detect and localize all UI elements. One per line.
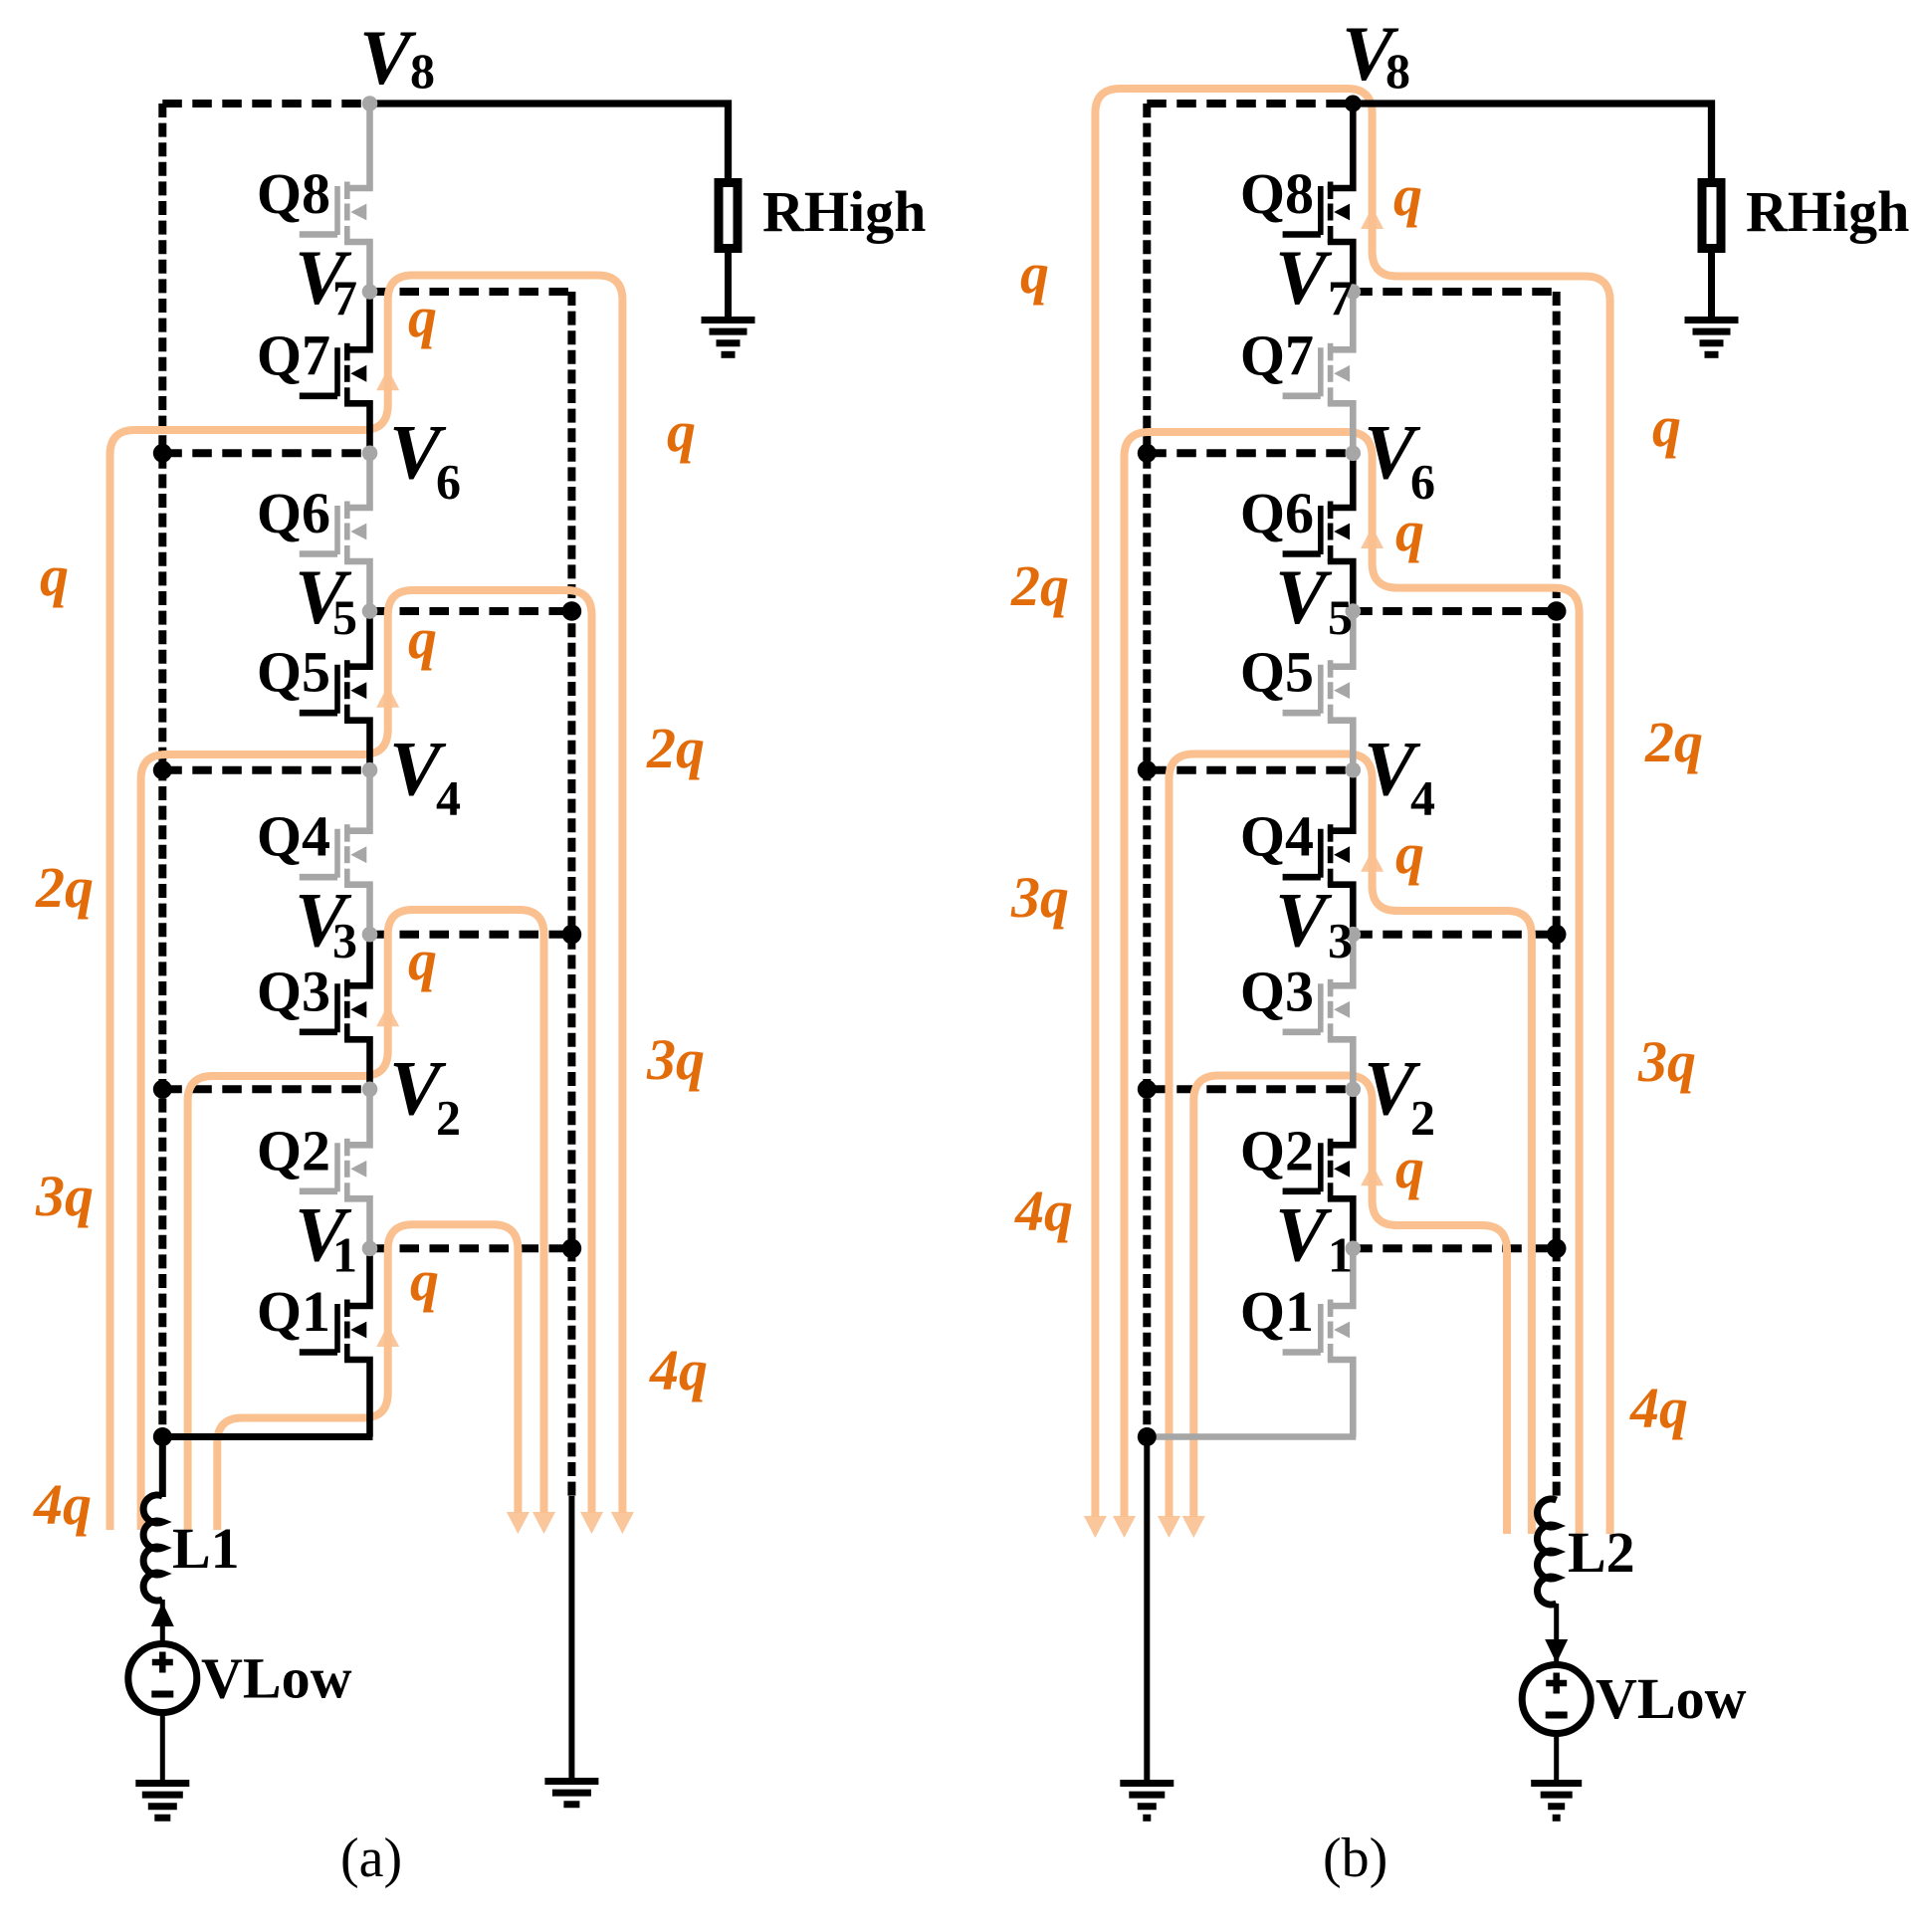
svg-text:4q: 4q [1629, 1376, 1688, 1440]
transistor Q7 (a) [300, 292, 370, 453]
label V6 (b) [1364, 408, 1435, 509]
svg-text:q: q [1395, 1136, 1424, 1200]
wire V8 to RHigh (b) [1353, 104, 1711, 178]
flow arrowhead Q1 (a) out [507, 1512, 530, 1534]
dashed cap link V8 top (a) [162, 100, 369, 107]
dashed cap link V3 (a) [370, 931, 572, 939]
dashed right bus (b) [1553, 292, 1561, 1498]
label q at Q8 (b) [1393, 163, 1422, 228]
flow arrow Q5 (a) up [376, 686, 399, 708]
svg-text:q: q [1395, 821, 1424, 886]
label 3q left (b) [1010, 865, 1069, 930]
label Q7 (a) [257, 322, 330, 387]
svg-text:Q4: Q4 [257, 804, 330, 869]
svg-text:Q1: Q1 [257, 1279, 330, 1344]
wire VLow to ground (b) [1554, 1733, 1559, 1783]
source VLow (b) [1522, 1665, 1591, 1734]
label V3 (a) [295, 877, 357, 968]
svg-text:Q5: Q5 [257, 640, 330, 705]
label q left (b) [1020, 241, 1049, 306]
label Q6 (a) [257, 481, 330, 545]
node right bus junction V5 (b) [1547, 601, 1567, 621]
svg-text:RHigh: RHigh [1746, 179, 1909, 244]
label V4 (a) [389, 726, 461, 826]
label Q4 (a) [257, 804, 330, 869]
flow arrowhead Q8 (b) out [1084, 1516, 1107, 1538]
node V1 (a) [362, 1241, 378, 1257]
resistor RHigh (a) [719, 183, 738, 249]
svg-text:Q7: Q7 [257, 322, 330, 387]
svg-text:3q: 3q [1010, 865, 1069, 930]
node V2 (a) [362, 1082, 378, 1098]
label Q1 (b) [1240, 1279, 1314, 1344]
wire bottom rail (a) [162, 1433, 372, 1440]
dashed left bus (a) [158, 104, 166, 1437]
svg-text:Q1: Q1 [1240, 1279, 1314, 1344]
label V3 (b) [1275, 877, 1353, 968]
label Q5 (a) [257, 640, 330, 705]
flow arrow Q2 (b) up [1361, 1164, 1384, 1185]
svg-text:3: 3 [1328, 913, 1353, 968]
label q at Q7 (a) [408, 285, 437, 349]
svg-text:q: q [408, 606, 437, 671]
label V1 (a) [295, 1190, 357, 1282]
label V8 (b) [1342, 10, 1410, 99]
label V7 (b) [1275, 234, 1353, 325]
svg-text:q: q [1393, 163, 1422, 228]
wire L2 to VLow (b) [1554, 1604, 1559, 1662]
transistor Q8 (a) [300, 104, 370, 292]
svg-text:V: V [359, 14, 417, 101]
wire right bus to ground (a) [568, 1496, 574, 1781]
node V3 (a) [362, 927, 378, 943]
label Q4 (b) [1240, 804, 1314, 869]
wire left bus to ground (b) [1144, 1437, 1150, 1784]
svg-text:Q4: Q4 [1240, 804, 1314, 869]
dashed cap link V2 (b) [1147, 1085, 1353, 1093]
dashed cap link V6 (a) [162, 449, 369, 457]
svg-text:Q8: Q8 [257, 161, 330, 226]
label q at Q3 (a) [408, 928, 437, 992]
transistor Q2 (b) [1283, 1089, 1354, 1248]
svg-text:2: 2 [436, 1089, 461, 1145]
transistor Q3 (b) [1283, 935, 1354, 1090]
label 2q left (b) [1010, 553, 1069, 618]
label q at Q6 (b) [1395, 499, 1424, 563]
label 2q right (b) [1644, 710, 1703, 774]
wire bottom rail (b) [1147, 1433, 1356, 1440]
wire RHigh to ground (a) [725, 249, 732, 321]
svg-text:7: 7 [332, 270, 357, 325]
svg-text:RHigh: RHigh [762, 179, 926, 244]
dashed cap link V5 (a) [370, 607, 572, 615]
label VLow (b) [1596, 1666, 1747, 1731]
wire V8 to RHigh (a) [370, 104, 729, 178]
svg-text:Q2: Q2 [1240, 1118, 1314, 1182]
node V5 (a) [362, 603, 378, 619]
svg-text:q: q [410, 1248, 439, 1313]
svg-text:V: V [1275, 1190, 1333, 1277]
svg-text:4q: 4q [1014, 1179, 1073, 1243]
resistor RHigh (b) [1702, 183, 1721, 249]
node V6 (b) [1346, 446, 1362, 462]
flow arrowhead Q4 (b) out [1158, 1516, 1180, 1538]
label 4q left (b) [1014, 1179, 1073, 1243]
label q at Q2 (b) [1395, 1136, 1424, 1200]
svg-text:4: 4 [1410, 770, 1435, 826]
label q left (a) [40, 543, 69, 608]
flow arrow Q6 (b) up [1361, 527, 1384, 548]
node right bus junction V3 (a) [562, 925, 582, 945]
flow arrowhead Q2 (b) out [1182, 1516, 1205, 1538]
label RHigh (a) [762, 179, 926, 244]
flow arrowhead Q3 (a) out [532, 1512, 555, 1534]
node V6 (a) [362, 446, 378, 462]
label Q3 (b) [1240, 959, 1314, 1023]
svg-text:3q: 3q [646, 1027, 705, 1092]
flow path q through Q4 (b) [1170, 754, 1532, 1535]
flow arrow Q3 (a) up [376, 1004, 399, 1026]
svg-text:5: 5 [332, 589, 357, 645]
transistor Q5 (b) [1283, 611, 1354, 770]
flow path q through Q3 (a) [188, 910, 544, 1530]
svg-text:L1: L1 [172, 1516, 240, 1581]
svg-text:q: q [1652, 394, 1681, 459]
transistor Q8 (b) [1283, 104, 1354, 292]
node V7 (a) [362, 284, 378, 300]
flow path q through Q7 (a) [110, 276, 623, 1531]
node left bus junction V2 (a) [153, 1080, 172, 1099]
label (b) [1323, 1827, 1387, 1889]
label V6 (a) [389, 408, 461, 509]
label 4q left (a) [33, 1472, 92, 1537]
label Q6 (b) [1240, 481, 1314, 545]
svg-text:2q: 2q [1010, 553, 1069, 618]
node right bus junction V3 (b) [1547, 925, 1567, 945]
flow arrowhead Q6 (b) out [1113, 1516, 1136, 1538]
dashed cap link V3 (b) [1353, 931, 1556, 939]
label Q3 (a) [257, 959, 330, 1023]
label RHigh (b) [1746, 179, 1909, 244]
svg-text:4: 4 [436, 770, 461, 826]
dashed cap link V2 (a) [162, 1085, 369, 1093]
label V8 (a) [359, 14, 435, 101]
label q at Q5 (a) [408, 606, 437, 671]
inductor L1 [143, 1495, 162, 1601]
label V7 (a) [295, 234, 357, 325]
label Q1 (a) [257, 1279, 330, 1344]
svg-text:VLow: VLow [201, 1646, 352, 1711]
label V2 (b) [1364, 1044, 1435, 1145]
node left bus junction V4 (b) [1138, 760, 1157, 779]
dashed cap link V1 (a) [370, 1244, 572, 1252]
svg-text:Q8: Q8 [1240, 161, 1314, 226]
wire L1 to VLow (a) [160, 1600, 165, 1644]
label V4 (b) [1364, 726, 1435, 826]
transistor Q7 (b) [1283, 292, 1354, 453]
label 4q right (b) [1629, 1376, 1688, 1440]
svg-text:q: q [408, 285, 437, 349]
svg-text:Q3: Q3 [257, 959, 330, 1023]
flow arrow Q7 (a) up [376, 368, 399, 390]
node V8 (b) [1345, 96, 1362, 112]
svg-text:1: 1 [1328, 1226, 1353, 1282]
label 3q right (b) [1637, 1029, 1696, 1094]
ground RHigh (a) [702, 321, 755, 355]
wire VLow to ground (a) [160, 1712, 165, 1783]
transistor Q2 (a) [300, 1089, 370, 1248]
svg-text:4q: 4q [33, 1472, 92, 1537]
source VLow (a) [128, 1644, 197, 1713]
dashed cap link V4 (b) [1147, 766, 1353, 774]
svg-text:2q: 2q [646, 716, 705, 780]
node V1 (b) [1346, 1241, 1362, 1257]
node V8 (a) [362, 96, 378, 111]
ground RHigh (b) [1685, 321, 1739, 355]
svg-text:V: V [1275, 877, 1333, 964]
svg-text:Q6: Q6 [1240, 481, 1314, 545]
label 3q right (a) [646, 1027, 705, 1092]
svg-text:8: 8 [1385, 43, 1410, 99]
svg-text:q: q [40, 543, 69, 608]
dashed cap link V7 (a) [370, 288, 572, 296]
label V5 (b) [1275, 553, 1353, 645]
label V1 (b) [1275, 1190, 1353, 1282]
node right bus junction V5 (a) [562, 601, 582, 621]
transistor Q3 (a) [300, 935, 370, 1090]
label V2 (a) [389, 1044, 461, 1145]
node right bus junction V1 (b) [1547, 1239, 1567, 1259]
label q at Q1 (a) [410, 1248, 439, 1313]
svg-text:8: 8 [410, 43, 435, 99]
node V2 (b) [1346, 1082, 1362, 1098]
wire RHigh to ground (b) [1708, 249, 1715, 321]
flow arrowhead Q7 (a) out [611, 1512, 634, 1534]
svg-text:6: 6 [436, 453, 461, 509]
flow path q through Q1 (a) [217, 1224, 518, 1530]
transistor Q6 (a) [300, 453, 370, 611]
label 3q left (a) [35, 1164, 94, 1228]
dashed cap link V7 (b) [1353, 288, 1556, 296]
svg-text:L2: L2 [1568, 1520, 1635, 1585]
svg-text:VLow: VLow [1596, 1666, 1747, 1731]
svg-text:q: q [1020, 241, 1049, 306]
flow arrow Q1 (a) up [376, 1325, 399, 1347]
flow path q through Q6 (b) [1125, 432, 1580, 1534]
flow path q through Q2 (b) [1193, 1076, 1507, 1535]
svg-text:Q5: Q5 [1240, 640, 1314, 705]
dashed right bus (a) [567, 292, 575, 1498]
flow path q through Q8 (b) [1095, 89, 1609, 1534]
svg-text:7: 7 [1328, 270, 1353, 325]
dashed cap link V4 (a) [162, 766, 369, 774]
transistor Q5 (a) [300, 611, 370, 770]
svg-text:q: q [408, 928, 437, 992]
svg-text:q: q [1395, 499, 1424, 563]
svg-text:1: 1 [332, 1226, 357, 1282]
label Q2 (b) [1240, 1118, 1314, 1182]
svg-text:Q7: Q7 [1240, 322, 1314, 387]
label q right (b) [1652, 394, 1681, 459]
flow arrowhead Q5 (a) out [580, 1512, 603, 1534]
node V5 (b) [1346, 603, 1362, 619]
label L1 [172, 1516, 240, 1581]
current arrow into L1 [151, 1603, 174, 1626]
node V4 (a) [362, 762, 378, 778]
svg-text:5: 5 [1328, 589, 1353, 645]
svg-text:Q6: Q6 [257, 481, 330, 545]
label Q8 (a) [257, 161, 330, 226]
dashed cap link V5 (b) [1353, 607, 1556, 615]
svg-text:3q: 3q [1637, 1029, 1696, 1094]
node left bus junction V2 (b) [1138, 1080, 1157, 1099]
node V3 (b) [1346, 927, 1362, 943]
svg-text:(b): (b) [1323, 1827, 1387, 1889]
node left bus junction V6 (b) [1138, 444, 1157, 463]
dashed cap link V1 (b) [1353, 1244, 1556, 1252]
svg-text:Q3: Q3 [1240, 959, 1314, 1023]
label V5 (a) [295, 553, 357, 645]
flow arrow Q8 (b) up [1361, 207, 1384, 229]
svg-text:3q: 3q [35, 1164, 94, 1228]
dashed cap link V8 top (b) [1147, 100, 1353, 107]
wire rail to L1 (a) [159, 1437, 166, 1498]
label Q7 (b) [1240, 322, 1314, 387]
transistor Q4 (b) [1283, 770, 1354, 935]
ground right bus (a) [544, 1782, 598, 1805]
transistor Q4 (a) [300, 770, 370, 935]
svg-text:2q: 2q [1644, 710, 1703, 774]
node V7 (b) [1346, 284, 1362, 300]
label Q5 (b) [1240, 640, 1314, 705]
label Q8 (b) [1240, 161, 1314, 226]
label VLow (a) [201, 1646, 352, 1711]
label 2q right (a) [646, 716, 705, 780]
current arrow into VLow (b) [1545, 1639, 1568, 1663]
ground left bus (b) [1120, 1784, 1173, 1819]
flow arrow Q4 (b) up [1361, 850, 1384, 872]
node V4 (b) [1346, 762, 1362, 778]
node rail-ground junction (b) [1138, 1427, 1157, 1446]
label q right (a) [667, 399, 696, 464]
inductor L2 [1538, 1499, 1557, 1605]
node left bus junction V4 (a) [153, 760, 172, 779]
transistor Q6 (b) [1283, 453, 1354, 611]
label 4q right (a) [649, 1338, 708, 1402]
label (a) [340, 1827, 402, 1889]
label Q2 (a) [257, 1118, 330, 1182]
ground VLow (a) [135, 1784, 189, 1819]
svg-text:Q2: Q2 [257, 1118, 330, 1182]
svg-text:(a): (a) [340, 1827, 402, 1889]
svg-text:q: q [667, 399, 696, 464]
svg-text:4q: 4q [649, 1338, 708, 1402]
node rail-L1 junction (a) [153, 1427, 172, 1446]
label q at Q4 (b) [1395, 821, 1424, 886]
dashed cap link V6 (b) [1147, 449, 1353, 457]
svg-text:V: V [1275, 553, 1333, 640]
transistor Q1 (b) [1283, 1248, 1354, 1436]
svg-text:2q: 2q [35, 855, 94, 920]
svg-text:3: 3 [332, 913, 357, 968]
node left bus junction V6 (a) [153, 444, 172, 463]
dashed left bus (b) [1143, 104, 1151, 1437]
flow path q through Q5 (a) [141, 590, 592, 1530]
ground VLow (b) [1531, 1784, 1582, 1819]
svg-text:V: V [1275, 234, 1333, 321]
transistor Q1 (a) [300, 1248, 370, 1436]
node right bus junction V1 (a) [562, 1239, 582, 1259]
label L2 [1568, 1520, 1635, 1585]
label 2q left (a) [35, 855, 94, 920]
